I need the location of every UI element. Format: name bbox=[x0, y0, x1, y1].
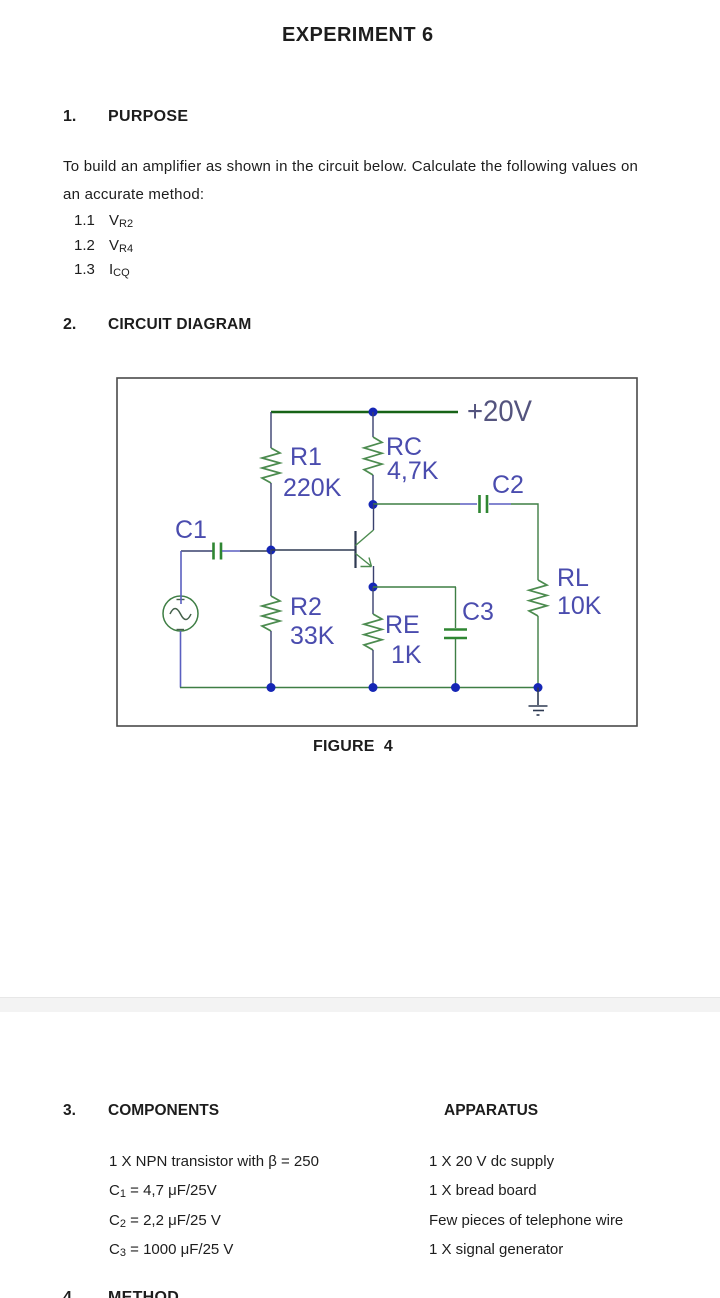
wire C3 top lead bbox=[455, 587, 457, 628]
svg-text:+20V: +20V bbox=[467, 395, 532, 428]
resistor RC bbox=[364, 437, 382, 475]
source V1 circle bbox=[163, 596, 198, 631]
heading 1 PURPOSE bbox=[63, 108, 76, 126]
wire C2 to RL corner bbox=[511, 504, 538, 580]
page separator band bbox=[0, 997, 720, 1012]
components list bbox=[109, 1147, 319, 1264]
wire RL bottom lead bbox=[537, 616, 539, 688]
heading 4 METHOD (cut off at page bottom) bbox=[63, 1289, 76, 1298]
svg-text:RE: RE bbox=[385, 611, 420, 639]
transistor Q1 collector stroke bbox=[356, 530, 374, 546]
capacitor C2 bbox=[480, 495, 488, 513]
svg-text:C3: C3 bbox=[462, 598, 494, 626]
wire R1 bottom lead bbox=[270, 483, 272, 550]
resistor RL bbox=[529, 580, 547, 616]
node top rail junction bbox=[369, 408, 378, 417]
wire C1 right lead bbox=[222, 550, 240, 552]
capacitor C1 bbox=[214, 543, 222, 560]
node rail RL junction bbox=[534, 683, 543, 692]
wire RE top lead bbox=[372, 587, 374, 614]
node rail RE junction bbox=[369, 683, 378, 692]
wire collector vertical bbox=[373, 504, 375, 530]
transistor Q1 base bar bbox=[354, 531, 356, 568]
wire C3 bottom lead bbox=[455, 639, 457, 688]
node collector junction bbox=[369, 500, 378, 509]
svg-text:1K: 1K bbox=[391, 641, 422, 669]
node emitter junction bbox=[369, 583, 378, 592]
svg-text:33K: 33K bbox=[290, 622, 335, 650]
wire source top lead bbox=[180, 551, 182, 604]
items bbox=[74, 209, 95, 283]
heading 2 CIRCUIT DIAGRAM bbox=[63, 316, 76, 334]
svg-text:10K: 10K bbox=[557, 592, 602, 620]
heading 3 COMPONENTS / APPARATUS bbox=[63, 1102, 76, 1120]
wire ground rail bbox=[180, 687, 538, 689]
title bbox=[282, 24, 434, 47]
wire collector to C2 bbox=[373, 503, 460, 505]
wire R1 top lead bbox=[270, 412, 272, 448]
figure border frame bbox=[117, 378, 637, 726]
transistor Q1 emitter stroke with arrow bbox=[356, 554, 372, 567]
figure: circuit schematic bbox=[0, 0, 720, 780]
wire +20V supply rail bbox=[271, 411, 458, 414]
node base junction bbox=[267, 546, 276, 555]
node rail C3 junction bbox=[451, 683, 460, 692]
svg-text:220K: 220K bbox=[283, 474, 342, 502]
wire C1 to base node bbox=[240, 550, 271, 552]
wire RC top lead bbox=[372, 412, 374, 437]
source V1 minus tick bbox=[177, 629, 185, 631]
svg-text:4,7K: 4,7K bbox=[387, 457, 439, 485]
source V1 plus tick bbox=[177, 599, 185, 601]
svg-text:C2: C2 bbox=[492, 471, 524, 499]
figure caption bbox=[313, 738, 393, 756]
ground bbox=[529, 688, 548, 716]
wire emitter to C3 bbox=[373, 586, 456, 588]
wire RC bottom lead bbox=[372, 475, 374, 504]
svg-text:R1: R1 bbox=[290, 443, 322, 471]
paragraph bbox=[63, 153, 638, 209]
wire base node to transistor bbox=[271, 549, 355, 551]
wire source bottom lead bbox=[180, 631, 182, 688]
wire C1 left lead bbox=[181, 550, 213, 552]
source V1 sine wave bbox=[170, 609, 191, 620]
svg-text:R2: R2 bbox=[290, 593, 322, 621]
node rail R2 junction bbox=[267, 683, 276, 692]
wire C2 left lead bbox=[460, 503, 477, 505]
apparatus list bbox=[429, 1147, 623, 1264]
wire R2 top lead bbox=[270, 550, 272, 596]
wire C2 right lead bbox=[489, 503, 511, 505]
wire emitter vertical bbox=[373, 566, 375, 587]
wire RE bottom lead bbox=[372, 650, 374, 688]
svg-text:RL: RL bbox=[557, 564, 589, 592]
wire R2 bottom lead bbox=[270, 631, 272, 688]
svg-text:C1: C1 bbox=[175, 516, 207, 544]
resistor R1 bbox=[262, 448, 280, 483]
capacitor C3 bbox=[444, 630, 467, 639]
resistor RE bbox=[364, 614, 382, 650]
resistor R2 bbox=[262, 596, 280, 631]
